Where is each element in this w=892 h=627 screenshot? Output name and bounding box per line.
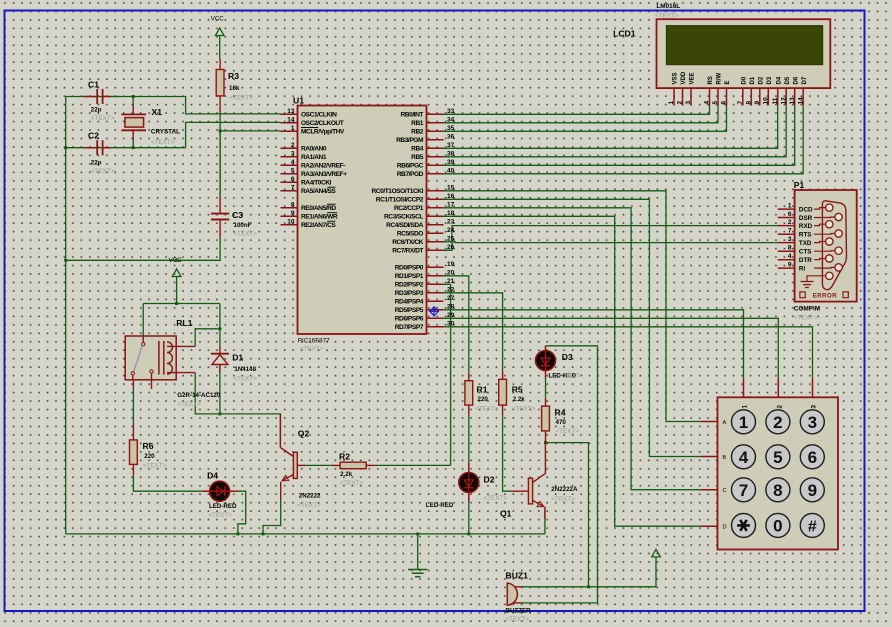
svg-text:3: 3: [788, 236, 792, 243]
wire RB4 (pin37) to LCD D4: [444, 105, 778, 148]
svg-text:<TEXT>: <TEXT>: [230, 95, 254, 102]
wire D4 cathode to ground rail: [238, 491, 246, 534]
svg-text:5: 5: [712, 101, 719, 105]
resistor R5 2.2k: [502, 371, 504, 379]
svg-text:<TEXT>: <TEXT>: [560, 373, 584, 380]
svg-text:B: B: [723, 455, 727, 461]
svg-text:RB4: RB4: [411, 146, 424, 153]
svg-text:37: 37: [447, 142, 455, 149]
svg-text:DCD: DCD: [799, 206, 813, 213]
svg-text:D1: D1: [750, 76, 756, 84]
keypad button 2: [766, 410, 790, 434]
relay pin (switch NC) below box: [132, 380, 134, 389]
keypad button 3: [800, 410, 824, 434]
wire R1 bottom to D2 top: [468, 415, 470, 473]
wire RC0 (pin15) to keypad row A: [444, 191, 701, 422]
capacitor C1: [84, 96, 97, 98]
svg-text:220: 220: [144, 453, 155, 460]
resistor R6 220: [132, 425, 134, 440]
svg-text:3: 3: [291, 150, 295, 157]
pin 27 (RD4/PSP4) stub and number: [427, 300, 444, 302]
svg-text:D3: D3: [767, 76, 773, 84]
COMPIM pin 4 (DTR): [778, 259, 795, 261]
svg-text:7: 7: [739, 481, 748, 500]
wire RB6 (pin39) to LCD D6: [444, 105, 795, 165]
svg-text:RA2/AN2/VREF-: RA2/AN2/VREF-: [301, 163, 345, 170]
pin 2 (RA0/AN0) stub and number: [281, 147, 298, 149]
svg-text:3: 3: [808, 413, 817, 432]
svg-text:8: 8: [746, 101, 753, 105]
svg-text:RC3/SCK/SCL: RC3/SCK/SCL: [384, 214, 423, 221]
pin 40 (RB7/PGD) stub and number: [427, 173, 444, 175]
svg-text:RE1/AN6/WR: RE1/AN6/WR: [301, 214, 338, 221]
wire R3 bottom to C3 top: [219, 113, 221, 196]
pin 3 (RA1/AN1) stub and number: [281, 156, 298, 158]
pin 29 (RD6/PSP6) stub and number: [427, 317, 444, 319]
svg-text:38: 38: [447, 150, 455, 157]
svg-text:8: 8: [291, 201, 295, 208]
svg-text:CTS: CTS: [799, 249, 812, 256]
svg-text:3: 3: [811, 405, 818, 409]
COMPIM pin 9 (RI): [778, 267, 795, 269]
svg-text:#: #: [808, 518, 817, 535]
LED D4 LED-RED: [202, 490, 210, 492]
pin 26 (RC7/RX/DT) stub and number: [427, 249, 444, 251]
svg-text:R/W: R/W: [717, 73, 723, 85]
svg-text:10: 10: [287, 218, 295, 225]
pin 17 (RC2/CCP1) stub and number: [427, 207, 444, 209]
wire relay pin to R6 top: [132, 389, 134, 425]
DB9 socket pin circle (column 1, 2): [826, 221, 833, 228]
svg-text:17: 17: [447, 201, 455, 208]
svg-text:VEE: VEE: [690, 72, 696, 84]
LCD pin 6 (E): [726, 88, 728, 105]
svg-text:35: 35: [447, 125, 455, 132]
COMPIM internal ground symbol: [807, 276, 826, 282]
svg-text:TXD: TXD: [799, 240, 812, 247]
keypad button 8: [766, 478, 790, 502]
svg-text:R5: R5: [512, 385, 523, 395]
pin 1 (MCLR/Vpp/THV) stub and number: [281, 130, 298, 132]
svg-text:30: 30: [447, 320, 455, 327]
wire D1 top drop: [219, 304, 221, 347]
wire RC3 (pin18) to keypad row D: [444, 216, 701, 526]
svg-text:PIC16F877: PIC16F877: [298, 338, 330, 345]
svg-text:P1: P1: [794, 180, 805, 190]
svg-text:13: 13: [789, 97, 796, 105]
pin 24 (RC5/SDO) stub and number: [427, 232, 444, 234]
transistor Q1 2N2222A: [528, 478, 532, 504]
DB9 socket pin circle (column 2, 4): [835, 264, 842, 271]
svg-text:C1: C1: [88, 80, 99, 90]
pin 28 (RD5/PSP5) stub and number: [427, 309, 444, 311]
wire MCLR row from R3 to pin 1: [220, 130, 280, 132]
svg-text:RS: RS: [708, 76, 714, 84]
wire R2 right to RD2 vertical: [375, 464, 451, 466]
svg-text:<TEXT>: <TEXT>: [208, 512, 232, 519]
svg-text:1: 1: [788, 203, 792, 210]
svg-text:19: 19: [447, 261, 455, 268]
keypad row pin stubs: [700, 421, 717, 423]
svg-text:34: 34: [447, 116, 455, 123]
svg-text:LED-RED: LED-RED: [209, 503, 237, 510]
svg-text:RTS: RTS: [799, 232, 812, 239]
svg-text:20: 20: [447, 269, 455, 276]
svg-text:OSC1/CLKIN: OSC1/CLKIN: [301, 112, 337, 119]
svg-text:0: 0: [773, 516, 782, 535]
svg-text:RD4/PSP4: RD4/PSP4: [395, 299, 424, 306]
pin 18 (RC3/SCK/SCL) stub and number: [427, 215, 444, 217]
LCD screen: [666, 26, 822, 65]
DB9 socket pin circle (column 2, 3): [835, 247, 842, 254]
pin 16 (RC1/T1OSI/CCP2) stub and number: [427, 198, 444, 200]
svg-text:<TEXT>: <TEXT>: [233, 376, 257, 383]
svg-text:9: 9: [754, 101, 761, 105]
svg-text:<TEXT>: <TEXT>: [556, 428, 580, 435]
svg-text:1: 1: [668, 101, 675, 105]
svg-text:1: 1: [742, 405, 749, 409]
svg-text:22: 22: [447, 286, 455, 293]
svg-text:MCLR/Vpp/THV: MCLR/Vpp/THV: [301, 129, 345, 136]
svg-text:BUZ1: BUZ1: [506, 571, 529, 581]
svg-text:RB5: RB5: [411, 154, 424, 161]
svg-text:RC6/TX/CK: RC6/TX/CK: [392, 239, 423, 246]
wire RB0 (pin33) to LCD RS: [444, 105, 710, 114]
svg-text:4: 4: [704, 101, 711, 105]
svg-text:28: 28: [447, 303, 455, 310]
svg-text:<TEXT>: <TEXT>: [794, 315, 818, 322]
svg-text:4: 4: [788, 253, 792, 260]
svg-text:U1: U1: [293, 96, 304, 106]
overline marks on active-low pin names: [301, 127, 318, 129]
svg-text:E: E: [725, 80, 731, 84]
svg-text:D4: D4: [776, 76, 782, 84]
resistor R1 220: [468, 372, 470, 380]
wire RD5 (pin28) to keypad column 1: [444, 310, 744, 379]
LCD pin 11 (D4): [777, 88, 779, 105]
svg-text:RB1: RB1: [411, 120, 424, 127]
LCD pin 9 (D2): [759, 88, 761, 105]
DB9 internal connection lines column 2: [814, 216, 835, 219]
svg-text:COMPIM: COMPIM: [794, 306, 820, 313]
LCD pin 1 (VSS): [673, 88, 675, 105]
svg-text:<TEXT>: <TEXT>: [234, 231, 258, 238]
svg-text:RD2/PSP2: RD2/PSP2: [395, 282, 424, 289]
svg-text:VDD: VDD: [681, 71, 687, 84]
svg-text:RE0/AN5/RD: RE0/AN5/RD: [301, 205, 336, 212]
wire RC6 (pin25) to COMPIM TXD: [444, 241, 778, 244]
svg-text:26: 26: [447, 244, 455, 251]
node VCC junction on rail: [64, 259, 67, 262]
svg-text:7: 7: [291, 184, 295, 191]
wire RB2 (pin35) to LCD E: [444, 105, 727, 131]
svg-text:<TEXT>: <TEXT>: [297, 502, 321, 509]
svg-text:14: 14: [797, 97, 804, 105]
svg-text:8: 8: [773, 481, 782, 500]
relay RL1 G2R-14-AC120: [125, 336, 176, 380]
svg-text:D2: D2: [758, 76, 764, 84]
pin 9 (RE1/AN6/WR) stub and number: [281, 215, 298, 217]
buzzer BUZ1: [507, 583, 517, 605]
DB9 socket pin circle (column 1, 3): [826, 238, 833, 245]
wire Q2 emitter to ground rail: [280, 482, 282, 500]
resistor R3 10k: [219, 59, 221, 70]
wire RD6 (pin29) to keypad column 2: [444, 318, 779, 378]
svg-text:Q2: Q2: [298, 429, 310, 439]
pin 33 (RB0/INT) stub and number: [427, 113, 444, 115]
svg-text:RA3/AN3/VREF+: RA3/AN3/VREF+: [301, 171, 347, 178]
svg-text:RI: RI: [799, 265, 806, 272]
svg-text:<TEXT>: <TEXT>: [475, 406, 499, 413]
microcontroller U1 PIC16F877 body: [298, 106, 427, 335]
keypad button 0: [766, 513, 790, 537]
LCD pin 4 (RS): [709, 88, 711, 105]
LCD pin 13 (D6): [794, 88, 796, 105]
pin 21 (RD2/PSP2) stub and number: [427, 283, 444, 285]
svg-text:R6: R6: [143, 441, 154, 451]
svg-text:<TEXT>: <TEXT>: [484, 495, 508, 502]
wire RD7 (pin30) to keypad column 3: [444, 327, 813, 379]
keypad body: [718, 397, 839, 549]
COMPIM pin 2 (RXD): [778, 225, 795, 227]
svg-text:CRYSTAL: CRYSTAL: [151, 129, 180, 136]
svg-text:10: 10: [763, 97, 770, 105]
wire C2 row to OSC2 corner: [66, 147, 186, 149]
svg-text:1: 1: [739, 413, 748, 432]
svg-text:<TEXT>: <TEXT>: [506, 616, 530, 622]
svg-text:22p: 22p: [91, 107, 102, 114]
svg-text:RA1/AN1: RA1/AN1: [301, 154, 327, 161]
svg-text:9: 9: [808, 481, 817, 500]
svg-text:<TEXT>: <TEXT>: [91, 168, 115, 175]
svg-text:220: 220: [478, 396, 489, 403]
keypad button 9: [800, 478, 824, 502]
crystal X1: [132, 95, 135, 98]
keypad button 6: [800, 445, 824, 469]
svg-text:100nF: 100nF: [234, 222, 252, 229]
LCD pin 2 (VDD): [682, 88, 684, 105]
wire relay switch pin drop: [142, 304, 144, 337]
svg-text:39: 39: [447, 159, 455, 166]
keypad button 1: [732, 410, 756, 434]
svg-text:4: 4: [739, 448, 749, 467]
svg-text:RB0/INT: RB0/INT: [401, 112, 424, 119]
pin 4 (RA2/AN2/VREF-) stub and number: [281, 164, 298, 166]
pin 5 (RA3/AN3/VREF+) stub and number: [281, 173, 298, 175]
LED D3 LED-RED: [545, 346, 547, 351]
svg-text:5: 5: [291, 167, 295, 174]
blue origin marker near pin 28: [429, 306, 439, 316]
pin 20 (RD1/PSP1) stub and number: [427, 275, 444, 277]
svg-text:RB3/PGM: RB3/PGM: [396, 137, 424, 144]
svg-text:25: 25: [447, 235, 455, 242]
capacitor C2: [84, 147, 97, 149]
svg-text:2: 2: [773, 413, 782, 432]
svg-text:<TEXT>: <TEXT>: [340, 480, 364, 487]
pin 15 (RC0/T1OSO/T1CKI) stub and number: [427, 190, 444, 192]
svg-text:2: 2: [677, 101, 684, 105]
svg-text:DTR: DTR: [799, 257, 812, 264]
svg-text:12: 12: [780, 97, 787, 105]
LCD pin 3 (VEE): [690, 88, 692, 105]
wire buzzer top to VCC arrow: [522, 557, 656, 587]
DB9 socket pin circle (column 2, 1): [835, 213, 842, 220]
wire ground symbol drop: [417, 534, 419, 569]
svg-text:11: 11: [772, 97, 779, 104]
svg-text:29: 29: [447, 312, 455, 319]
svg-text:24: 24: [447, 227, 455, 234]
keypad column pin stubs: [743, 378, 745, 397]
svg-text:15: 15: [447, 184, 455, 191]
svg-text:2.2k: 2.2k: [513, 396, 526, 403]
svg-text:R2: R2: [339, 452, 350, 462]
wire Q1 emitter to ground rail: [544, 519, 546, 534]
svg-text:1N4148: 1N4148: [234, 366, 256, 373]
pin 37 (RB4) stub and number: [427, 147, 444, 149]
svg-text:9: 9: [788, 262, 792, 269]
svg-text:D6: D6: [793, 76, 799, 84]
svg-text:7: 7: [788, 228, 792, 235]
svg-text:2: 2: [788, 219, 792, 226]
svg-text:RD1/PSP1: RD1/PSP1: [395, 273, 424, 280]
svg-text:D7: D7: [802, 76, 808, 84]
svg-text:5: 5: [773, 448, 782, 467]
DB9 connector outline: [822, 201, 846, 290]
svg-text:R4: R4: [555, 408, 566, 418]
pin 25 (RC6/TX/CK) stub and number: [427, 241, 444, 243]
svg-text:6: 6: [291, 176, 295, 183]
svg-text:VCC: VCC: [211, 16, 225, 23]
svg-text:D: D: [723, 525, 727, 531]
svg-text:22p: 22p: [91, 160, 102, 167]
svg-text:7: 7: [737, 101, 744, 105]
svg-text:23: 23: [447, 218, 455, 225]
svg-text:36: 36: [447, 133, 455, 140]
svg-text:18: 18: [447, 210, 455, 217]
relay coil core bars: [158, 341, 160, 375]
pin 38 (RB5) stub and number: [427, 156, 444, 158]
svg-text:RL1: RL1: [176, 318, 192, 328]
relay coil winding arcs: [167, 342, 172, 374]
pin 7 (RA5/AN4/SS) stub and number: [281, 190, 298, 192]
LCD display LCD1 LM016L body: [657, 19, 831, 88]
transistor Q2 2N2222: [293, 452, 297, 478]
svg-text:C3: C3: [232, 210, 243, 220]
svg-text:3: 3: [685, 101, 692, 105]
svg-text:RA0/AN0: RA0/AN0: [301, 146, 327, 153]
svg-text:RE2/AN7/CS: RE2/AN7/CS: [301, 222, 336, 229]
diode D1 1N4148: [219, 346, 221, 353]
LCD pin 12 (D5): [785, 88, 787, 105]
ground symbol (main rail): [408, 569, 427, 571]
pin 36 (RB3/PGM) stub and number: [427, 139, 444, 141]
LCD pin 10 (D3): [767, 88, 769, 105]
keypad button hash: [800, 513, 824, 537]
DB9 socket pin circle (column 2, 2): [835, 230, 842, 237]
svg-text:A: A: [723, 420, 727, 426]
svg-text:RC5/SDO: RC5/SDO: [397, 231, 423, 238]
svg-text:2N2222A: 2N2222A: [551, 486, 578, 493]
wire RC1 (pin16) to keypad row B: [444, 199, 701, 456]
svg-text:RA5/AN4/SS: RA5/AN4/SS: [301, 188, 336, 195]
svg-text:9: 9: [291, 210, 295, 217]
svg-text:D2: D2: [484, 475, 495, 485]
power flag VCC (buzzer): [652, 549, 661, 557]
capacitor C3 100nF: [219, 196, 221, 213]
keypad button 5: [766, 445, 790, 469]
svg-text:21: 21: [447, 278, 455, 285]
pin 6 (RA4/T0CKI) stub and number: [281, 181, 298, 183]
svg-text:<TEXT>: <TEXT>: [177, 401, 201, 408]
COMPIM pin 7 (RTS): [778, 233, 795, 235]
svg-text:BUZZER: BUZZER: [506, 608, 532, 615]
wire R4 bottom junction to buzzer column V1: [546, 443, 589, 587]
wire D3 bottom to R4 top: [545, 378, 547, 398]
pin 14 (OSC2/CLKOUT) stub and number: [281, 122, 298, 124]
COMPIM pin 1 (DCD): [778, 208, 795, 210]
LCD pin 14 (D7): [802, 88, 804, 105]
svg-text:<TEXT>: <TEXT>: [512, 406, 536, 413]
svg-text:4: 4: [291, 159, 295, 166]
wire Q2 base to R2: [305, 464, 331, 466]
LCD pin 7 (D0): [742, 88, 744, 105]
svg-text:DSR: DSR: [799, 215, 813, 222]
wire VCC left rail vertical: [65, 97, 67, 534]
svg-text:RB6/PGC: RB6/PGC: [397, 163, 424, 170]
wire relay coil bottom down and right to Q2 collector: [195, 373, 280, 447]
svg-text:6: 6: [721, 101, 728, 105]
LCD pin 5 (R/W): [717, 88, 719, 105]
svg-text:LED-RED: LED-RED: [426, 502, 454, 509]
svg-text:D0: D0: [741, 76, 747, 84]
svg-text:X1: X1: [152, 107, 163, 117]
svg-text:RC2/CCP1: RC2/CCP1: [394, 205, 424, 212]
pin 35 (RB2) stub and number: [427, 130, 444, 132]
wire VCC arrow stem to relay top wire: [176, 277, 178, 304]
svg-text:<TEXT>: <TEXT>: [91, 115, 115, 122]
svg-text:<TEXT>: <TEXT>: [655, 13, 679, 20]
wire relay top horizontal: [143, 303, 220, 305]
svg-text:D3: D3: [562, 352, 573, 362]
pin 30 (RD7/PSP7) stub and number: [427, 326, 444, 328]
wire D2 bottom to ground rail: [468, 492, 470, 534]
svg-text:R3: R3: [228, 71, 239, 81]
pin 19 (RD0/PSP0) stub and number: [427, 266, 444, 268]
svg-text:RD5/PSP5: RD5/PSP5: [395, 307, 424, 314]
svg-text:6: 6: [808, 448, 817, 467]
svg-text:ERROR: ERROR: [813, 293, 837, 300]
svg-text:16: 16: [447, 193, 455, 200]
svg-text:27: 27: [447, 295, 455, 302]
svg-text:2: 2: [291, 142, 295, 149]
svg-text:RD3/PSP3: RD3/PSP3: [395, 290, 424, 297]
svg-text:2: 2: [776, 405, 783, 409]
svg-text:RA4/T0CKI: RA4/T0CKI: [301, 180, 332, 187]
wire RD2 (pin21) down to R2: [444, 284, 451, 465]
svg-text:<TEXT>: <TEXT>: [151, 139, 175, 146]
LED D2 LED-RED: [468, 463, 470, 473]
svg-text:D1: D1: [232, 353, 243, 363]
keypad button star: [732, 513, 756, 537]
svg-text:Q1: Q1: [500, 509, 512, 519]
COMPIM pin 8 (CTS): [778, 250, 795, 252]
svg-text:2N2222: 2N2222: [299, 493, 321, 500]
wire R6 bottom to D4 anode: [133, 475, 201, 492]
DB9 internal connection lines column 1: [814, 208, 826, 210]
svg-text:8: 8: [788, 245, 792, 252]
svg-text:40: 40: [447, 167, 455, 174]
wire bottom ground rail: [66, 533, 545, 535]
